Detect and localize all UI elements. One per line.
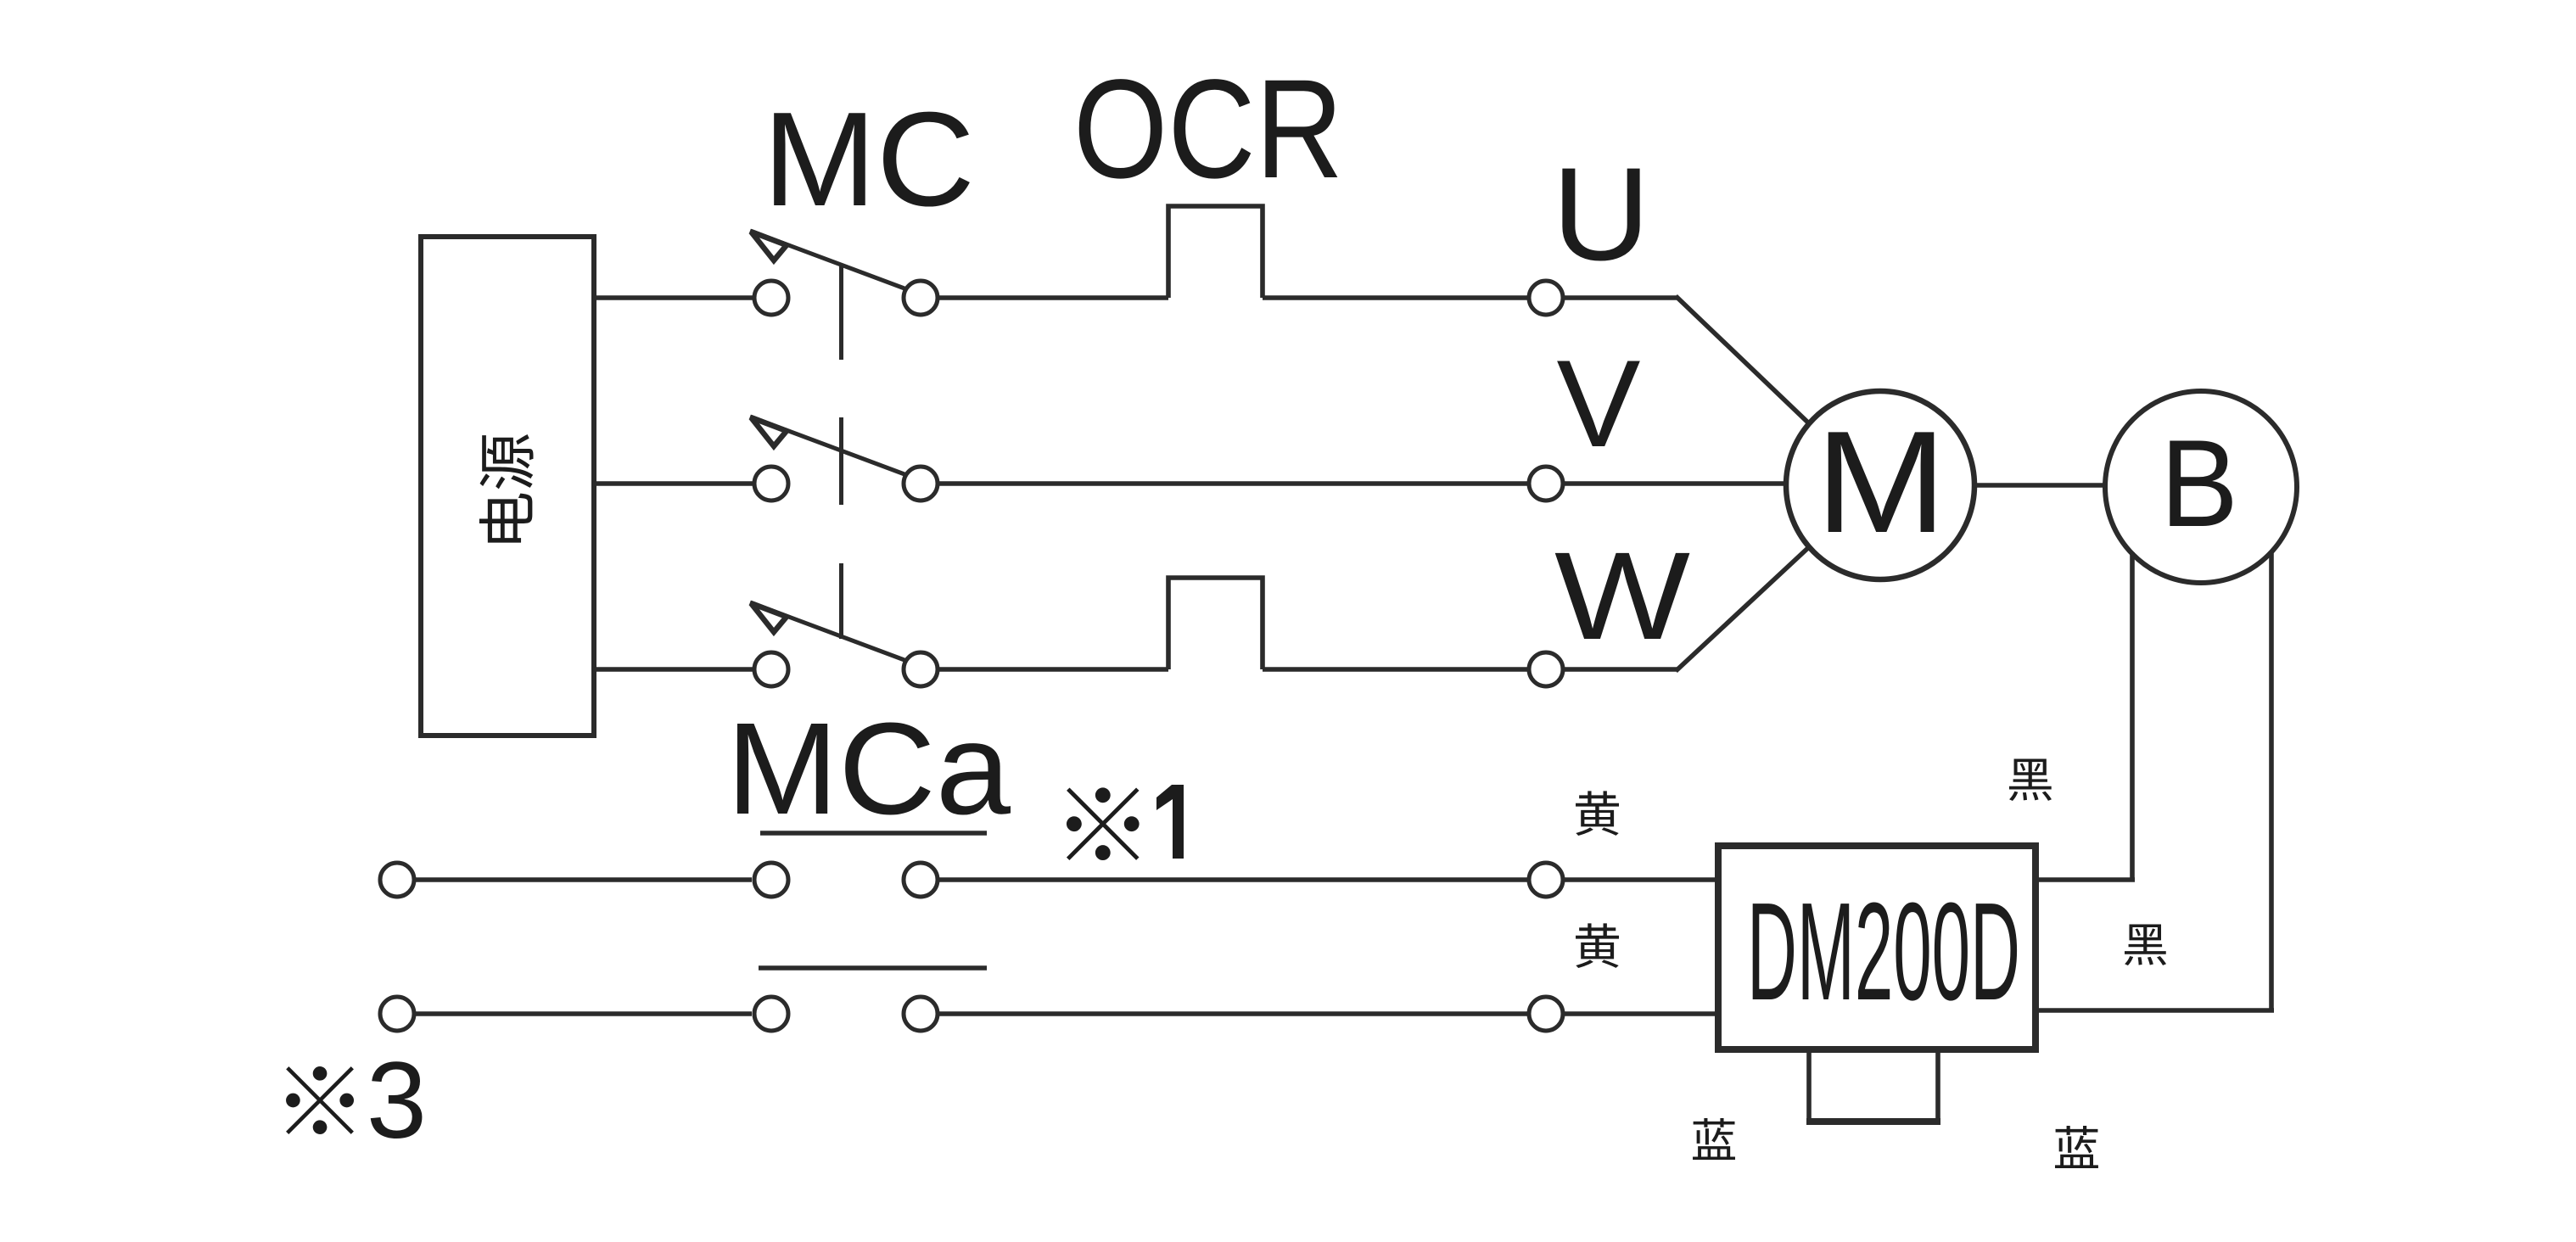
svg-text:MCa: MCa	[726, 696, 1011, 842]
svg-text:MC: MC	[763, 85, 975, 234]
svg-text:V: V	[1557, 334, 1641, 473]
svg-text:B: B	[2160, 414, 2238, 552]
svg-text:3: 3	[367, 1040, 427, 1161]
svg-text:M: M	[1816, 401, 1947, 563]
svg-text:DM200D: DM200D	[1747, 874, 2020, 1029]
svg-text:U: U	[1552, 141, 1650, 288]
svg-text:OCR: OCR	[1073, 51, 1343, 208]
svg-text:W: W	[1554, 527, 1690, 666]
